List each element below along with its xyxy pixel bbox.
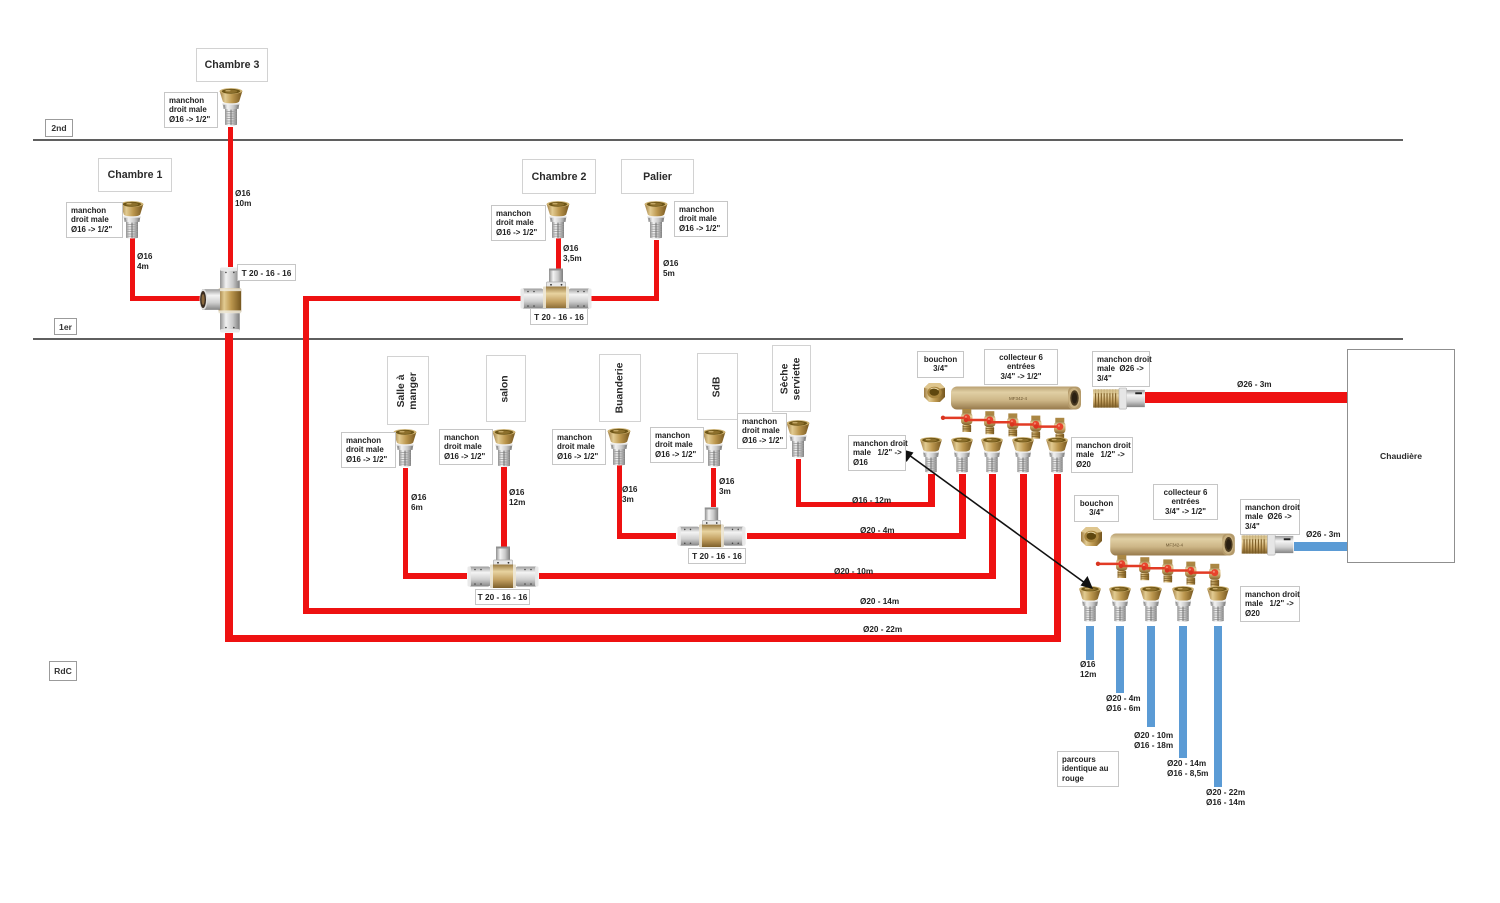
pipe red main 1er horizontal T2-left to riser bbox=[303, 296, 521, 301]
label parcours identique au rouge bbox=[1057, 751, 1119, 787]
collector 2 valve outlets bbox=[1108, 555, 1233, 580]
pipe red Chambre1 vertical O16 4m bbox=[130, 238, 135, 301]
pipe red Buanderie horizontal to T4 bbox=[617, 533, 677, 539]
text O20 - 22m line label bbox=[863, 625, 902, 635]
svg-text:MF342-4: MF342-4 bbox=[1166, 542, 1184, 547]
fitting manchon SdB bbox=[702, 429, 726, 469]
room box Chambre 3 bbox=[196, 48, 268, 82]
label manchon O26 collector 1 bbox=[1092, 351, 1150, 387]
tee T3 near salon bbox=[467, 546, 539, 590]
collector 1 bouchon 3/4 bbox=[924, 383, 945, 403]
arrow from manchon label to collector 2 fittings bbox=[900, 445, 1095, 593]
collector 2 bouchon 3/4 bbox=[1081, 527, 1102, 547]
label manchon Chambre 2 bbox=[491, 205, 546, 241]
collector 1 output fitting f5 bbox=[1045, 437, 1069, 475]
pipe blue collector2 drop f5 bbox=[1214, 626, 1222, 787]
pipe red Salle a manger horizontal to T3 bbox=[403, 573, 468, 579]
label manchon Chambre 1 bbox=[66, 202, 123, 238]
fitting manchon Seche serviette bbox=[786, 420, 810, 460]
pipe red T1 drop x229 bbox=[225, 333, 233, 642]
label manchon Seche serviette bbox=[737, 413, 787, 449]
label bouchon collector 2 bbox=[1074, 495, 1119, 522]
pipe red Buanderie vertical O16 3m bbox=[617, 465, 622, 539]
label manchon 1/2 to O20 (collector2) bbox=[1240, 586, 1300, 622]
room box Chambre 1 bbox=[98, 158, 172, 192]
pipe red O26 - 3m to Chaudiere bbox=[1145, 392, 1348, 403]
label manchon 1/2 to O20 (collector1 right) bbox=[1071, 437, 1133, 473]
collector 2 output fitting f2 bbox=[1108, 586, 1132, 624]
room box Palier bbox=[621, 159, 694, 194]
fitting manchon Chambre 1 bbox=[120, 201, 144, 241]
svg-text:MF342-4: MF342-4 bbox=[1009, 396, 1028, 401]
text O16 5m (Palier pipe) bbox=[663, 259, 678, 278]
tee T2 near Chambre 2 bbox=[520, 268, 592, 312]
pipe red Chambre3 drop O16 10m bbox=[228, 127, 233, 267]
tee T1 vertical near Chambre 1 bbox=[198, 267, 244, 334]
pipe red riser x306 down to O20-14m bbox=[303, 296, 309, 614]
pipe red salon drop O16 12m bbox=[501, 467, 507, 547]
room box Seche serviette (vertical) bbox=[772, 345, 811, 412]
floor line 1er bbox=[33, 338, 1403, 340]
label T2 bbox=[530, 308, 588, 325]
room box Salle a manger (vertical) bbox=[387, 356, 429, 425]
text O20-10m O16-18m (blue drop 3) bbox=[1134, 731, 1173, 750]
text O20-22m O16-14m (blue drop 5) bbox=[1206, 788, 1245, 807]
pipe red O20 - 14m horizontal bbox=[303, 608, 1027, 614]
text O20 - 4m line label bbox=[860, 526, 895, 536]
pipe red O20 - 10m horizontal T3 to collector bbox=[539, 573, 996, 579]
text O16 3m (SdB pipe) bbox=[719, 477, 734, 496]
pipe red collector1 drop f4 bbox=[1020, 474, 1027, 614]
text O16 3m (Buanderie pipe) bbox=[622, 485, 637, 504]
text O16 12m (salon pipe) bbox=[509, 488, 525, 507]
text O16 3,5m (Chambre 2 pipe) bbox=[563, 244, 582, 263]
text O16 10m (Chambre 3 pipe) bbox=[235, 189, 251, 208]
pipe red Chambre2 drop O16 3,5m bbox=[556, 237, 561, 269]
collector 1 output fitting f4 bbox=[1011, 437, 1035, 475]
text O20 - 14m line label bbox=[860, 597, 899, 607]
pipe blue collector2 drop f4 bbox=[1179, 626, 1187, 758]
label manchon salon bbox=[439, 429, 493, 465]
text O20-4m O16-6m (blue drop 2) bbox=[1106, 694, 1141, 713]
label manchon Buanderie bbox=[552, 429, 606, 465]
collector 2 output fitting f5 bbox=[1206, 586, 1230, 624]
text O16 4m (Chambre 1 pipe) bbox=[137, 252, 152, 271]
text O16 12m (blue drop 1) bbox=[1080, 660, 1096, 679]
label T3 bbox=[475, 589, 530, 605]
collector 2 manchon O26 bbox=[1241, 534, 1294, 556]
pipe red O16 - 12m horizontal bbox=[796, 502, 935, 508]
room box Buanderie (vertical) bbox=[599, 354, 641, 422]
pipe red collector1 drop f3 bbox=[989, 474, 996, 579]
fitting manchon Palier bbox=[644, 201, 668, 241]
text O16 6m (Salle a manger pipe) bbox=[411, 493, 426, 512]
pipe blue collector2 drop f1 bbox=[1086, 626, 1094, 660]
pipe red SdB drop O16 3m bbox=[711, 468, 716, 507]
floor label 1er bbox=[54, 318, 77, 335]
Chaudiere box bbox=[1347, 349, 1455, 563]
label collecteur 1 bbox=[984, 349, 1058, 385]
label manchon 1/2 to O16 (collector1 left) bbox=[848, 435, 906, 471]
label manchon SdB bbox=[650, 427, 704, 463]
text O26 - 3m (blue line) bbox=[1306, 530, 1341, 540]
floor label RdC bbox=[49, 661, 77, 681]
text O20-14m O16-8,5m (blue drop 4) bbox=[1167, 759, 1208, 778]
text O16 - 12m line label bbox=[852, 496, 891, 506]
room box SdB (vertical) bbox=[697, 353, 738, 420]
label manchon Chambre 3 bbox=[164, 92, 218, 128]
floor label 2nd bbox=[45, 119, 73, 137]
pipe red Salle a manger vertical O16 6m bbox=[403, 468, 408, 579]
collector 1 body bbox=[951, 386, 1082, 410]
pipe blue collector2 drop f3 bbox=[1147, 626, 1155, 727]
pipe red Chambre1 horizontal to T1 bbox=[130, 296, 200, 301]
label bouchon collector 1 bbox=[917, 351, 964, 378]
collector 1 valve outlets bbox=[953, 409, 1078, 434]
label T4 bbox=[688, 548, 746, 564]
room box salon (vertical) bbox=[486, 355, 526, 422]
pipe blue collector2 drop f2 bbox=[1116, 626, 1124, 693]
text O20 - 10m line label bbox=[834, 567, 873, 577]
room box Chambre 2 bbox=[522, 159, 596, 194]
fitting manchon Chambre 3 bbox=[219, 88, 243, 128]
collector 2 output fitting f1 bbox=[1078, 586, 1102, 624]
fitting manchon Buanderie bbox=[607, 428, 631, 468]
collector 1 output fitting f3 bbox=[980, 437, 1004, 475]
pipe red collector1 drop f1 bbox=[928, 474, 935, 507]
text O26 - 3m (red line) bbox=[1237, 380, 1272, 390]
fitting manchon salon bbox=[492, 429, 516, 469]
collector 1 output fitting f2 bbox=[950, 437, 974, 475]
label collecteur 2 bbox=[1153, 484, 1218, 520]
floor line 2nd bbox=[33, 139, 1403, 141]
pipe blue O26 - 3m to Chaudiere bbox=[1294, 542, 1347, 551]
label manchon Palier bbox=[674, 201, 728, 237]
tee T4 near SdB bbox=[676, 507, 747, 549]
collector 2 output fitting f4 bbox=[1171, 586, 1195, 624]
fitting manchon Chambre 2 bbox=[546, 201, 570, 241]
label T1 bbox=[237, 264, 296, 281]
label manchon O26 collector 2 bbox=[1240, 499, 1300, 535]
pipe red Seche serviette vertical bbox=[796, 459, 801, 507]
pipe red O20 - 4m horizontal T4 to collector bbox=[747, 533, 966, 539]
collector 1 manchon O26 bbox=[1092, 388, 1146, 410]
pipe red Palier vertical O16 5m bbox=[654, 240, 659, 301]
pipe red collector1 drop f5 bbox=[1054, 474, 1061, 642]
pipe red O20 - 22m horizontal bbox=[225, 635, 1061, 642]
collector 2 body bbox=[1108, 533, 1238, 556]
pipe red Palier horizontal to T2 bbox=[591, 296, 659, 301]
collector 1 output fitting f1 bbox=[919, 437, 943, 475]
pipe red collector1 drop f2 bbox=[959, 474, 966, 539]
label manchon Salle a manger bbox=[341, 432, 396, 468]
fitting manchon Salle a manger bbox=[393, 429, 417, 469]
collector 2 output fitting f3 bbox=[1139, 586, 1163, 624]
